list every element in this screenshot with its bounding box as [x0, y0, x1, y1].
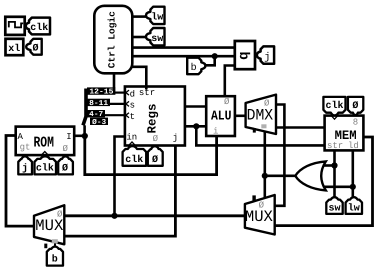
component b (rotated label box)	[235, 41, 255, 69]
svg-text:d: d	[130, 89, 135, 99]
tag clk (under Regs)	[123, 146, 147, 166]
svg-text:in: in	[126, 132, 137, 142]
wire MEM ld to lw tunnel	[351, 151, 354, 199]
svg-text:Ø: Ø	[224, 97, 230, 107]
svg-text:ROM: ROM	[33, 134, 54, 151]
wire DMX out0 to rightMUX in1	[275, 105, 285, 206]
svg-text:sw: sw	[328, 204, 340, 215]
multiplexer MUX (right)	[245, 195, 275, 235]
node sw junction	[331, 162, 337, 168]
node regs-out2 junction	[193, 123, 199, 129]
svg-text:s: s	[130, 101, 135, 111]
svg-text:I: I	[66, 132, 71, 142]
svg-text:Ø: Ø	[153, 134, 159, 144]
svg-text:i: i	[213, 126, 218, 136]
wire DMX select down to rightMUX select	[263, 131, 266, 198]
tag b (points right)	[187, 58, 205, 74]
wire DMX out1 to MEM	[276, 126, 325, 129]
wire b tunnel to bus2	[205, 56, 215, 65]
value tag 0 (above MEM)	[348, 97, 363, 115]
memory MEM	[325, 116, 364, 151]
label box Xl	[6, 39, 24, 55]
or gate	[295, 161, 326, 190]
wire leftMUX select to b tunnel	[54, 242, 56, 248]
svg-text:gt: gt	[20, 143, 31, 153]
svg-text:Ø: Ø	[32, 43, 38, 54]
wire MEM str to sw tunnel	[333, 151, 336, 199]
wire bus2 ctrl to b-box	[133, 55, 235, 58]
wire regs out2 to MEM str	[196, 126, 324, 145]
svg-text:sw: sw	[151, 34, 163, 45]
wire Regs out1 to ALU	[185, 105, 206, 108]
svg-text:Regs: Regs	[146, 103, 160, 133]
ROM unit	[16, 127, 74, 156]
wire splitter root	[83, 125, 86, 136]
node bus2 junction	[212, 53, 218, 59]
clock component X1	[5, 17, 24, 35]
svg-text:A: A	[18, 132, 24, 142]
register file Regs	[125, 87, 185, 146]
wire b-box to ALU top	[225, 66, 235, 97]
wire Regs out2 to ALU	[185, 125, 206, 128]
wire OR bottom input	[319, 186, 353, 189]
svg-text:Ø: Ø	[352, 101, 358, 112]
wire ctrl to lw tag	[133, 15, 149, 18]
tag sw (under MEM)	[326, 197, 342, 214]
node lw junction	[350, 184, 356, 190]
svg-text:Ø-3: Ø-3	[92, 118, 107, 127]
svg-text:b: b	[191, 62, 197, 74]
tag sw (top)	[146, 28, 165, 45]
svg-text:8: 8	[353, 118, 358, 128]
svg-text:Ø: Ø	[63, 144, 69, 154]
tag j (under ROM)	[18, 156, 32, 174]
svg-text:Ø: Ø	[152, 155, 158, 166]
ALU unit	[206, 96, 235, 136]
multiplexer MUX (left)	[34, 205, 64, 248]
svg-text:Ctrl Logic: Ctrl Logic	[106, 11, 117, 68]
splitter label 4-7	[87, 110, 105, 119]
wire tap2 to Regs s	[108, 103, 125, 105]
svg-text:ld: ld	[348, 141, 359, 151]
label tag clk (clock)	[26, 18, 50, 35]
value tag 0 (under Regs)	[148, 146, 163, 166]
splitter label 12-15	[87, 87, 115, 96]
tag clk (under ROM)	[35, 156, 57, 174]
svg-text:xl: xl	[8, 43, 20, 55]
wire ALU out to DMX	[235, 115, 246, 118]
svg-text:clk: clk	[30, 22, 48, 34]
node regs-in junction	[111, 213, 117, 219]
wire bus1 ctrl to b-box	[133, 46, 235, 49]
svg-text:lw: lw	[348, 203, 360, 215]
svg-text:b: b	[52, 253, 58, 265]
wire Regs j to leftMUX in2	[64, 146, 175, 237]
svg-text:b: b	[235, 51, 251, 59]
tag lw (under MEM)	[346, 197, 362, 214]
demultiplexer DMX	[246, 95, 276, 134]
wire tap1 to Regs d	[113, 91, 125, 93]
wire tap3 to Regs t	[103, 114, 125, 116]
splitter label 8-11	[87, 99, 110, 108]
svg-text:str: str	[327, 141, 343, 151]
svg-text:clk: clk	[36, 163, 54, 175]
wire ROM I to splitter root	[75, 135, 85, 138]
value tag 0 (clock)	[26, 39, 42, 55]
svg-text:t: t	[130, 112, 135, 122]
node splitter root junction	[82, 133, 88, 139]
svg-text:j: j	[264, 51, 270, 63]
value tag 0 (under ROM)	[58, 156, 73, 174]
wire OR output to select line	[265, 175, 296, 178]
node select junction	[262, 173, 268, 179]
svg-text:MUX: MUX	[245, 208, 273, 226]
wire OR top input	[321, 164, 335, 167]
tag j (right of b box)	[257, 46, 274, 63]
svg-text:j: j	[173, 133, 178, 143]
svg-text:j: j	[22, 163, 28, 175]
wire rightMUX out to leftMUX in1	[64, 214, 245, 217]
tag b (under left MUX)	[47, 247, 63, 266]
svg-text:DMX: DMX	[247, 106, 274, 124]
ctrl logic unit	[94, 6, 132, 74]
svg-text:str: str	[139, 88, 155, 98]
wire MEM out loop to rightMUX in2	[275, 137, 373, 226]
svg-text:MUX: MUX	[35, 217, 63, 235]
wire instruction bus to ALU i	[85, 136, 217, 175]
svg-text:clk: clk	[125, 154, 143, 166]
wire PC loop MUX out to ROM A	[6, 136, 34, 227]
wire Regs in down to bus	[115, 137, 125, 216]
wire ctrl to sw tag	[133, 36, 149, 39]
wire ctrl to Regs str	[133, 67, 147, 90]
tag lw (top)	[146, 7, 165, 24]
svg-text:ALU: ALU	[211, 109, 232, 124]
svg-text:12-15: 12-15	[89, 88, 114, 97]
svg-text:Ø: Ø	[62, 164, 68, 175]
wire ctrl bottom to splitter tap1	[113, 74, 116, 89]
splitter spine	[83, 89, 86, 126]
svg-text:lw: lw	[151, 12, 163, 24]
svg-text:8-11: 8-11	[89, 99, 109, 108]
tag clk (above MEM)	[323, 97, 345, 116]
splitter label 0-3	[90, 118, 108, 127]
svg-text:clk: clk	[325, 100, 343, 112]
